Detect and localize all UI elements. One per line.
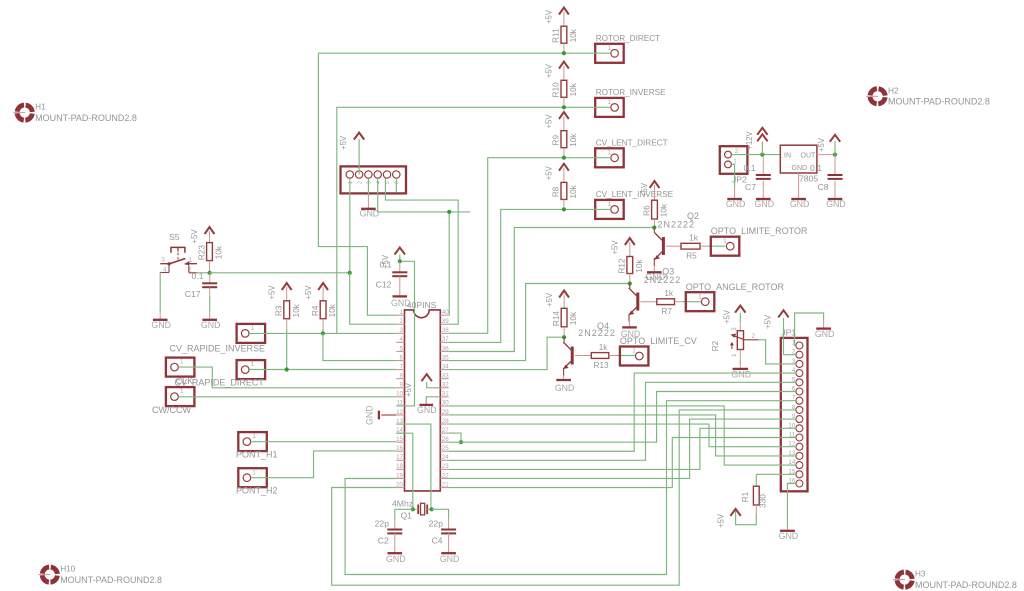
ground below C4 (440, 546, 460, 564)
svg-text:OPTO_LIMITE_CV: OPTO_LIMITE_CV (620, 336, 697, 346)
svg-text:GND: GND (790, 199, 810, 209)
svg-text:10k: 10k (328, 303, 337, 317)
wire 7805 OUT to +5V (817, 154, 835, 156)
wire to IC pin6 (323, 333, 396, 360)
+5V symbol above connector pin2 (339, 133, 364, 175)
svg-text:+5V: +5V (190, 229, 199, 244)
svg-text:+5V: +5V (764, 314, 773, 329)
svg-text:H2: H2 (888, 86, 899, 95)
wire R1 to JP1 pin15 (756, 473, 796, 475)
svg-text:37: 37 (442, 336, 449, 343)
resistor R8 10k (552, 182, 578, 209)
svg-text:1: 1 (632, 348, 636, 355)
svg-text:1: 1 (608, 99, 612, 106)
wire R11 net to IC pin1 (318, 53, 564, 315)
ground below JP2 (726, 188, 746, 209)
svg-text:CLK: CLK (176, 376, 194, 386)
wire IC pin27 jog (449, 433, 461, 442)
ground below R2 (732, 369, 752, 380)
svg-text:2N2222: 2N2222 (578, 328, 616, 338)
wire crystal left to C2 (395, 509, 413, 519)
junction R9 (562, 156, 566, 160)
ground at JP1 pin1 (815, 320, 835, 339)
svg-text:MOUNT-PAD-ROUND2.8: MOUNT-PAD-ROUND2.8 (888, 97, 990, 107)
svg-text:1: 1 (180, 388, 184, 395)
svg-text:OPTO_ANGLE_ROTOR: OPTO_ANGLE_ROTOR (686, 282, 785, 292)
svg-text:10k: 10k (292, 303, 301, 317)
wire R3 to pad junction (286, 319, 288, 370)
svg-text:3: 3 (731, 327, 738, 331)
svg-text:CV_RAPIDE_INVERSE: CV_RAPIDE_INVERSE (170, 343, 266, 353)
ground below Q2 (646, 266, 666, 282)
svg-text:GND: GND (365, 405, 375, 425)
ground below C8 (826, 181, 846, 209)
svg-text:+12V: +12V (745, 130, 754, 149)
resistor R23 10k (197, 243, 223, 273)
capacitor C4 22p (429, 519, 456, 547)
svg-text:330: 330 (758, 494, 767, 508)
svg-text:28: 28 (442, 418, 449, 425)
svg-text:PONT_H1: PONT_H1 (236, 450, 278, 460)
svg-text:1: 1 (698, 293, 702, 300)
mount pad H10 (38, 565, 162, 585)
svg-text:GND: GND (417, 405, 437, 415)
pad OPTO_LIMITE_CV (620, 336, 697, 365)
svg-text:1: 1 (608, 149, 612, 156)
wire R1 to +5V (736, 509, 757, 525)
resistor R3 10k (275, 301, 301, 319)
junction R23/C17 (208, 271, 212, 275)
svg-text:38: 38 (442, 327, 449, 334)
wire bus IC pins 26-21 to JP1 (449, 373, 796, 487)
pad OPTO_ANGLE_ROTOR (686, 282, 785, 311)
junction crystal left (411, 507, 415, 511)
pin numbers U1 (396, 309, 449, 488)
svg-text:Q1: Q1 (401, 510, 413, 520)
+5V symbol above R6 (640, 181, 659, 200)
junction R10 (562, 105, 566, 109)
svg-text:GND: GND (555, 383, 575, 393)
svg-text:4Mhz: 4Mhz (392, 499, 413, 509)
wire CV_LENT_INVERSE net to IC pin36 (449, 228, 655, 352)
ground below C7 (755, 181, 775, 209)
svg-text:ROTOR_INVERSE: ROTOR_INVERSE (596, 88, 666, 97)
wire ROTOR_DIRECT (564, 52, 611, 54)
svg-text:+5V: +5V (640, 182, 649, 197)
junction pin27/26 (459, 440, 463, 444)
potentiometer R2 (711, 323, 759, 361)
svg-text:12: 12 (396, 409, 403, 416)
wire IC pin20 to JP1 pin8 (332, 410, 796, 585)
ground below connector (360, 196, 380, 219)
svg-text:2N2222: 2N2222 (644, 275, 682, 285)
wire Q2 emitter to ground (653, 258, 655, 266)
wire JP1 pin1 to ground (795, 313, 824, 346)
wire CV_LENT_INVERSE (564, 208, 611, 210)
svg-text:PONT_H2: PONT_H2 (236, 486, 278, 496)
svg-text:GND: GND (826, 199, 846, 209)
svg-text:1: 1 (723, 238, 727, 245)
wire Q4 emitter to ground (563, 369, 565, 376)
svg-text:4: 4 (400, 336, 404, 343)
svg-text:C4: C4 (432, 536, 443, 546)
resistor R11 10k (552, 26, 578, 53)
junction R3/pad/pin7 (285, 367, 289, 371)
pad CV_LENT_INVERSE (595, 190, 673, 219)
svg-text:1: 1 (731, 353, 738, 357)
svg-text:+5V: +5V (545, 9, 554, 24)
+5V symbol to JP1 pin2 (764, 310, 796, 355)
pad CV_RAPIDE_INVERSE (170, 324, 266, 353)
svg-text:1: 1 (252, 469, 256, 476)
svg-text:GND: GND (815, 329, 835, 339)
wire R14 net to IC pin34 (449, 337, 564, 369)
ground below C12 (391, 290, 411, 308)
wire R4 down (322, 319, 324, 334)
svg-text:C17: C17 (185, 289, 201, 299)
wire JP1 pin16 to ground (787, 484, 796, 528)
capacitor C17 0.1 (185, 271, 217, 312)
svg-text:10: 10 (396, 391, 403, 398)
svg-text:0.1: 0.1 (744, 163, 756, 173)
svg-text:MOUNT-PAD-ROUND2.8: MOUNT-PAD-ROUND2.8 (60, 575, 162, 585)
pad OPTO_LIMITE_ROTOR (711, 226, 808, 256)
svg-text:ROTOR_DIRECT: ROTOR_DIRECT (596, 34, 660, 43)
svg-text:R9: R9 (552, 135, 561, 146)
svg-text:32: 32 (442, 382, 449, 389)
svg-text:36: 36 (442, 345, 449, 352)
svg-text:+5V: +5V (723, 309, 732, 324)
wire JP2 pin2 to 7805 IN (731, 154, 780, 156)
svg-text:10k: 10k (215, 245, 224, 259)
svg-text:10k: 10k (569, 311, 578, 325)
wire U1 pin14 to crystal (396, 433, 413, 509)
resistor R4 10k (311, 301, 337, 319)
junction R12/Q3 (628, 281, 632, 285)
svg-text:7: 7 (400, 363, 404, 370)
wire S5 net to IC pin2 (210, 272, 350, 274)
svg-text:R10: R10 (552, 82, 561, 97)
pad ROTOR_DIRECT (595, 34, 660, 63)
svg-text:27: 27 (442, 427, 449, 434)
svg-text:+5V: +5V (267, 285, 276, 300)
connector JP2 (720, 146, 748, 184)
wire S5 to R23 node (197, 272, 210, 274)
svg-text:GND: GND (755, 199, 775, 209)
IC 7805 regulator (780, 145, 818, 183)
svg-text:0.1: 0.1 (380, 260, 392, 270)
svg-text:22: 22 (442, 472, 449, 479)
junction pad/R4/pin6 (321, 331, 325, 335)
transistor Q4 2N2222 (563, 321, 616, 369)
svg-text:10k: 10k (569, 28, 578, 42)
svg-text:16: 16 (396, 445, 403, 452)
svg-text:17: 17 (396, 454, 403, 461)
wire crystal right to C4 (432, 509, 449, 519)
svg-text:5: 5 (400, 345, 404, 352)
svg-text:+5V: +5V (545, 292, 554, 307)
svg-text:0.1: 0.1 (192, 271, 204, 281)
junction R6/Q2 (652, 225, 656, 229)
capacitor C8 0.1 (810, 155, 842, 192)
wire ROTOR_INVERSE (564, 106, 611, 108)
svg-text:C2: C2 (378, 536, 389, 546)
svg-text:29: 29 (442, 409, 449, 416)
svg-text:2: 2 (752, 333, 756, 340)
svg-text:OPTO_LIMITE_ROTOR: OPTO_LIMITE_ROTOR (711, 226, 808, 236)
pad PONT_H2 (236, 468, 278, 495)
svg-text:7805: 7805 (799, 173, 818, 183)
svg-text:CV_LENT_INVERSE: CV_LENT_INVERSE (596, 190, 674, 199)
+5V symbol above R9 (545, 112, 569, 131)
svg-text:35: 35 (442, 354, 449, 361)
ground symbol at U1 pin12 (365, 405, 397, 425)
ground below JP1 (779, 527, 799, 541)
wire bus IC pins 30-28 to JP1 14-12 (449, 406, 796, 465)
+5V symbol at 7805 out (817, 135, 840, 155)
wire R2 pin2 to JP1 pin3 (759, 340, 796, 364)
svg-text:CV_LENT_DIRECT: CV_LENT_DIRECT (596, 139, 668, 148)
svg-text:GND: GND (779, 531, 799, 541)
svg-text:1k: 1k (689, 234, 699, 243)
wire CV_RAPIDE_DIRECT to IC pin7 (249, 369, 396, 371)
svg-text:1: 1 (252, 433, 256, 440)
svg-text:GND: GND (726, 199, 746, 209)
svg-text:40PINS: 40PINS (407, 300, 437, 310)
transistor Q2 2N2222 (654, 211, 699, 260)
crystal Q1 4Mhz (392, 499, 430, 521)
svg-text:C12: C12 (376, 280, 392, 290)
pad PONT_H1 (236, 432, 278, 459)
svg-text:GND: GND (391, 298, 411, 308)
svg-text:19: 19 (396, 472, 403, 479)
svg-text:24: 24 (442, 454, 449, 461)
wire CV_LENT_DIRECT (564, 157, 611, 159)
svg-text:+5V: +5V (545, 114, 554, 129)
svg-text:5: 5 (385, 181, 391, 184)
wire Q3 emitter to ground (628, 315, 630, 322)
svg-text:1: 1 (180, 359, 184, 366)
svg-text:9: 9 (400, 382, 404, 389)
svg-text:0.1: 0.1 (810, 163, 822, 173)
resistor R1 330 (741, 474, 767, 514)
svg-text:OUT: OUT (801, 152, 817, 159)
svg-text:R11: R11 (552, 28, 561, 43)
pad CV_LENT_DIRECT (595, 139, 667, 168)
wire R12 net to IC pin35 (449, 284, 630, 361)
svg-text:IN: IN (784, 152, 791, 159)
capacitor C12 0.1 (376, 260, 408, 290)
svg-text:10k: 10k (635, 258, 644, 272)
switch S5 (160, 232, 197, 274)
transistor Q3 2N2222 (629, 266, 681, 315)
resistor R14 10k (552, 308, 578, 337)
resistor R9 10k (552, 131, 578, 158)
resistor R10 10k (552, 80, 578, 107)
svg-text:39: 39 (442, 318, 449, 325)
svg-text:10k: 10k (569, 82, 578, 96)
pad CW/CCW (152, 387, 194, 415)
svg-text:1: 1 (400, 309, 404, 316)
wire CW/CCW to IC pin10 (178, 396, 396, 398)
mount pad H2 (866, 86, 990, 106)
junction R8 (562, 207, 566, 211)
svg-text:33: 33 (442, 372, 449, 379)
junction connector pin4 (447, 210, 451, 214)
junction C12 (398, 259, 402, 263)
svg-text:C7: C7 (745, 182, 756, 192)
wire connector pin4 to IC pin40 (378, 178, 471, 315)
svg-text:R6: R6 (642, 205, 651, 216)
svg-text:26: 26 (442, 436, 449, 443)
svg-text:+5V: +5V (404, 382, 413, 397)
+5V symbol inside U1 to pin32 (422, 374, 441, 388)
ground below C2 (386, 546, 406, 564)
svg-text:3: 3 (367, 181, 373, 184)
wire R8 net to IC pin37 (449, 209, 564, 342)
svg-text:+5V: +5V (817, 137, 826, 152)
svg-text:1: 1 (189, 256, 193, 263)
svg-text:R3: R3 (275, 305, 284, 316)
svg-text:+5V: +5V (304, 285, 313, 300)
wire +5V net C12 to pin11 (396, 261, 414, 406)
svg-text:GND: GND (386, 554, 406, 564)
svg-text:10k: 10k (569, 184, 578, 198)
pad CV_RAPIDE_DIRECT (174, 360, 265, 387)
junction S5 net / connector (348, 271, 352, 275)
wire R10 net riser (337, 107, 564, 333)
+5V symbol above R3 (267, 283, 291, 301)
svg-text:10k: 10k (660, 203, 669, 217)
svg-text:3: 3 (400, 327, 404, 334)
svg-text:31: 31 (442, 391, 449, 398)
svg-text:21: 21 (442, 481, 449, 488)
svg-text:GND: GND (201, 320, 221, 330)
connector SV1 6-pin (341, 166, 407, 193)
wire PONT_H1 to IC pin15 (251, 441, 397, 443)
svg-text:R12: R12 (618, 258, 627, 273)
svg-text:S5: S5 (169, 232, 180, 242)
svg-text:+5V: +5V (339, 135, 348, 150)
svg-text:R7: R7 (661, 307, 672, 316)
+5V symbol above R12 (611, 238, 635, 257)
wire connector pin1 down (349, 178, 351, 273)
+5V symbol above R23 (190, 227, 214, 244)
junction +12V node (760, 153, 764, 157)
svg-text:GND: GND (360, 209, 380, 219)
svg-text:+5V: +5V (545, 63, 554, 78)
svg-text:R4: R4 (311, 305, 320, 316)
svg-text:25: 25 (442, 445, 449, 452)
wire connector pin3 to ground (367, 178, 369, 196)
svg-text:R5: R5 (686, 252, 697, 261)
pad CLK (166, 358, 195, 387)
svg-text:R1: R1 (741, 491, 750, 502)
wire R9 net to IC pin38 (449, 158, 564, 334)
pins U1 stubs (396, 315, 448, 487)
ground symbol inside U1 pin31 (417, 397, 440, 415)
ground below S5 (151, 312, 171, 331)
pad ROTOR_INVERSE (595, 88, 666, 117)
svg-text:2: 2 (357, 181, 363, 184)
+12V symbol (745, 128, 768, 155)
svg-text:+5V: +5V (717, 513, 726, 528)
wire JP2 pin1 to ground (731, 164, 734, 188)
capacitor C2 22p (375, 519, 403, 547)
junction 7805 out (833, 153, 837, 157)
svg-text:1: 1 (251, 361, 255, 368)
+5V symbol above C12 (381, 248, 405, 270)
wire PONT_H2 to IC pin16 (251, 451, 397, 478)
svg-text:23: 23 (442, 463, 449, 470)
svg-text:22p: 22p (375, 519, 390, 529)
+5V symbol above R8 (545, 164, 569, 183)
svg-text:10k: 10k (569, 133, 578, 147)
svg-text:6: 6 (400, 354, 404, 361)
wire connector pin5 to IC pin39 (385, 178, 458, 324)
ground below Q3 (621, 322, 641, 339)
svg-text:GND: GND (151, 320, 171, 330)
junction R11 (562, 51, 566, 55)
svg-text:1: 1 (608, 201, 612, 208)
+5V symbol above R14 (545, 291, 569, 309)
resistor R5 1k (666, 234, 725, 261)
ground below C17 (201, 312, 221, 331)
svg-text:40: 40 (442, 309, 449, 316)
mount pad H3 (893, 570, 1017, 590)
junction R14/Q4 (562, 335, 566, 339)
svg-text:R8: R8 (552, 186, 561, 197)
op-amp U1 40PINS body (405, 300, 441, 491)
svg-text:3: 3 (161, 257, 165, 264)
wire CLK to IC pin9 (178, 367, 396, 388)
+5V symbol below JP1 (717, 509, 741, 528)
svg-text:1: 1 (251, 325, 255, 332)
svg-text:H3: H3 (915, 570, 926, 579)
svg-text:GND: GND (792, 165, 808, 172)
wire R2 pin1 ground (739, 361, 741, 368)
resistor R6 10k (642, 200, 668, 227)
svg-text:15: 15 (396, 436, 403, 443)
+5V symbol above R2 (723, 306, 746, 324)
svg-text:R23: R23 (197, 245, 206, 260)
+5V symbol above R4 (304, 283, 328, 301)
wire to IC pin2 (350, 273, 397, 324)
wire CV_RAPIDE_INVERSE to IC pin3 (249, 332, 396, 334)
svg-text:30: 30 (442, 400, 449, 407)
svg-text:18: 18 (396, 463, 403, 470)
resistor R13 1k (575, 343, 635, 370)
resistor R12 10k (618, 257, 644, 284)
svg-text:1k: 1k (599, 343, 609, 352)
svg-text:MOUNT-PAD-ROUND2.8: MOUNT-PAD-ROUND2.8 (35, 113, 137, 123)
svg-text:H10: H10 (60, 565, 75, 574)
+5V symbol above R10 (545, 62, 569, 81)
ground pin 7805 (790, 173, 810, 209)
svg-text:8: 8 (400, 372, 404, 379)
svg-text:34: 34 (442, 363, 449, 370)
svg-text:1: 1 (608, 45, 612, 52)
svg-text:C8: C8 (818, 182, 829, 192)
wire connector pin6 stub (395, 178, 397, 192)
resistor R7 1k (640, 289, 700, 316)
svg-text:+5V: +5V (611, 240, 620, 255)
svg-text:GND: GND (732, 370, 752, 380)
svg-text:1: 1 (348, 181, 354, 184)
svg-text:2: 2 (400, 318, 404, 325)
svg-text:GND: GND (440, 554, 460, 564)
junction crystal right (430, 507, 434, 511)
